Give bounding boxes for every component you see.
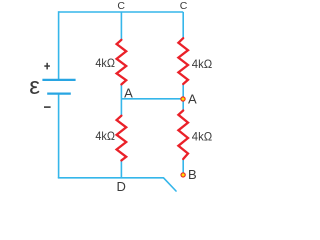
battery V1 minus sign	[44, 106, 51, 108]
battery V1 plus sign	[44, 63, 50, 70]
svg-text:C: C	[117, 0, 125, 12]
svg-text:4kΩ: 4kΩ	[95, 129, 115, 143]
wire: top bus from battery top to right branch	[59, 11, 184, 13]
svg-text:4kΩ: 4kΩ	[95, 56, 115, 70]
svg-text:B: B	[188, 167, 197, 182]
wire: middle vertical, bottom segment (R3 to D)	[120, 160, 122, 178]
svg-text:C: C	[180, 0, 188, 12]
svg-text:D: D	[117, 179, 126, 194]
wire: right vertical, R4 to node B	[182, 159, 184, 175]
wire: middle vertical, top segment (C to R1)	[120, 12, 122, 40]
wire: right vertical, top segment (C to R2)	[182, 12, 184, 38]
svg-text:4kΩ: 4kΩ	[192, 57, 212, 71]
wire: right vertical, R2 to node A	[182, 84, 184, 99]
wire: diagonal stub to lower right	[164, 178, 177, 191]
resistor R2 4kOhm (upper right branch)	[178, 38, 188, 84]
wire: middle horizontal A-A link	[121, 98, 183, 100]
resistor R3 4kOhm (lower left branch)	[117, 116, 127, 161]
svg-text:A: A	[188, 92, 197, 107]
svg-text:ε: ε	[29, 73, 40, 100]
wire: left vertical, bottom of battery	[58, 94, 60, 178]
resistor R1 4kOhm (upper left branch)	[117, 40, 127, 85]
svg-text:A: A	[124, 85, 133, 100]
wire: left vertical, top of battery	[58, 11, 60, 79]
svg-text:4kΩ: 4kΩ	[192, 130, 212, 144]
node A terminal dot	[180, 96, 185, 101]
wire: bottom bus through node D	[58, 177, 164, 179]
wire: middle vertical, segment R1 to R3 through node A junction	[120, 84, 122, 115]
battery V1 positive plate	[42, 79, 75, 81]
battery V1 negative plate	[47, 92, 71, 94]
node B terminal dot	[180, 172, 185, 177]
wire: right vertical, node A to R4	[182, 99, 184, 111]
resistor R4 4kOhm (lower right branch)	[178, 111, 188, 160]
